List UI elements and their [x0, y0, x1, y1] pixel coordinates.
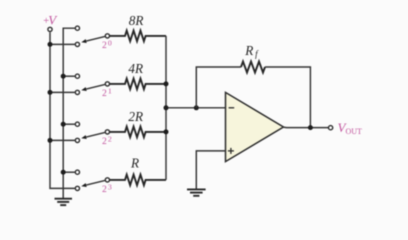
svg-text:22: 22 — [102, 135, 112, 147]
junction: +V rail / S2 lower — [48, 138, 53, 143]
wire: non-inverting input to ground — [196, 151, 225, 189]
svg-text:R: R — [130, 156, 139, 171]
svg-text:21: 21 — [102, 87, 112, 99]
op-amp U1 — [226, 92, 284, 161]
wire: S0 lower contact to +V rail — [50, 43, 75, 45]
junction: +V rail / S0 lower — [48, 42, 53, 47]
switch S2 lower contact — [75, 138, 79, 142]
+V terminal — [48, 27, 52, 31]
wire: S1 lower contact to +V rail — [50, 91, 75, 93]
switch S0 pole — [105, 34, 109, 38]
switch S1 upper contact — [75, 74, 79, 78]
junction: bus / 4R — [164, 81, 169, 86]
wire: feedback right segment — [265, 67, 310, 128]
op-amp minus sign — [229, 107, 235, 109]
junction: ground rail / S2 upper — [61, 122, 66, 127]
switch S0 lower contact — [75, 42, 79, 46]
resistor 2R — [110, 127, 166, 138]
junction: bus / inverting wire — [164, 105, 169, 110]
switch S0 armature — [81, 36, 105, 43]
junction: output / feedback — [308, 125, 313, 130]
switch S1 armature — [81, 84, 105, 91]
wire: S3 upper contact to ground rail — [63, 171, 75, 173]
junction: ground rail / S3 upper — [61, 170, 66, 175]
svg-text:VOUT: VOUT — [338, 120, 363, 136]
svg-text:8R: 8R — [129, 13, 144, 28]
switch S3 pole — [105, 178, 109, 182]
wire: feedback left segment — [196, 67, 241, 108]
wire: S2 lower contact to +V rail — [50, 139, 75, 141]
wire: S1 upper contact to ground rail — [63, 75, 75, 77]
switch S3 lower contact — [75, 186, 79, 190]
switch S3 upper contact — [75, 170, 79, 174]
wire: ground rail (top bend to S0 upper contact, down to ground) — [63, 28, 75, 198]
wire: op-amp output — [283, 126, 328, 129]
switch S1 lower contact — [75, 90, 79, 94]
ground symbol (op-amp) — [187, 189, 206, 195]
switch S1 pole — [105, 82, 109, 86]
output terminal — [329, 126, 333, 130]
svg-text:23: 23 — [102, 183, 112, 195]
wire: S2 upper contact to ground rail — [63, 123, 75, 125]
switch S2 pole — [105, 130, 109, 134]
resistor 4R — [110, 79, 166, 90]
svg-text:4R: 4R — [128, 61, 143, 76]
wire: +V rail (down left side, bends right to S3 lower contact) — [50, 32, 75, 188]
switch S0 upper contact — [75, 26, 79, 30]
ground symbol (left rail) — [55, 199, 73, 205]
resistor 8R — [110, 31, 166, 42]
svg-text:Rf: Rf — [244, 43, 259, 59]
switch S2 upper contact — [75, 122, 79, 126]
op-amp plus sign — [228, 148, 234, 154]
switch S3 armature — [81, 180, 105, 187]
junction: bus / 2R — [164, 129, 169, 134]
wire: summing bus — [165, 36, 167, 180]
svg-text:2R: 2R — [128, 109, 143, 124]
switch S2 armature — [81, 132, 105, 139]
svg-text:V: V — [48, 13, 58, 28]
junction: ground rail / S1 upper — [61, 74, 66, 79]
svg-text:20: 20 — [102, 39, 112, 51]
junction: feedback tap — [194, 105, 199, 110]
resistor Rf — [241, 62, 265, 73]
wire: bus to inverting input — [166, 107, 226, 109]
resistor R — [110, 175, 166, 186]
junction: +V rail / S1 lower — [48, 90, 53, 95]
